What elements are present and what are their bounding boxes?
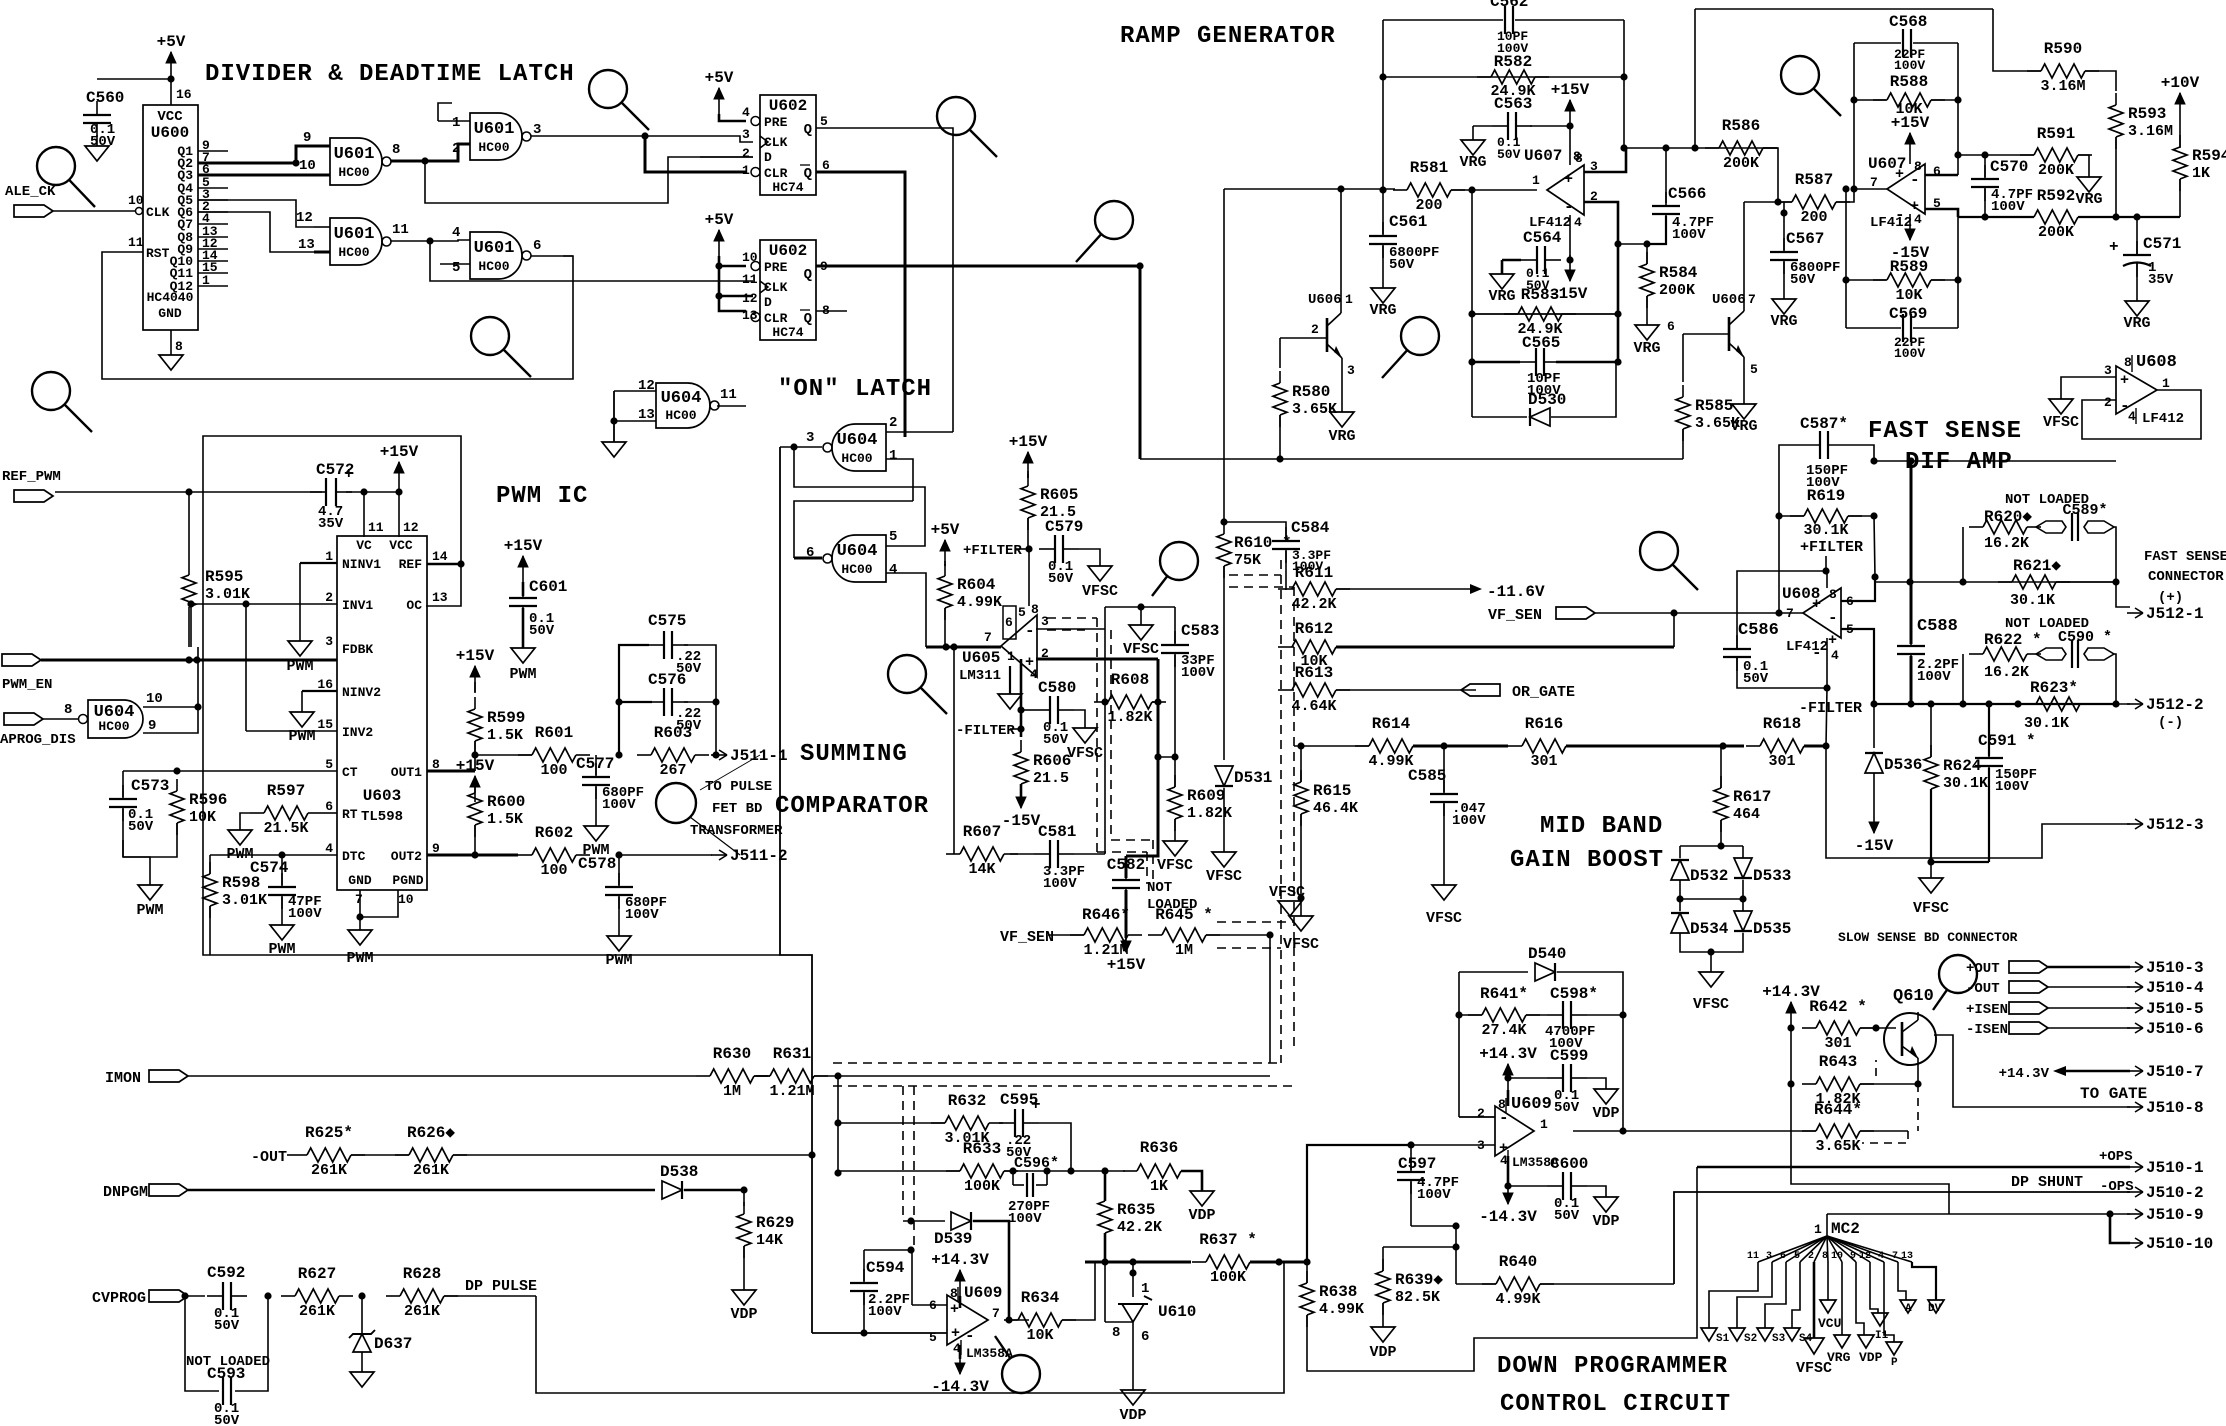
pin8 tick a — [957, 1287, 959, 1302]
resistor R584 — [1640, 252, 1698, 308]
svg-text:J510-4: J510-4 — [2146, 979, 2204, 997]
wire R622 link — [1962, 654, 1964, 704]
svg-text:D637: D637 — [374, 1335, 412, 1353]
ground VRG C561 — [1369, 288, 1396, 319]
svg-text:C588: C588 — [1917, 617, 1958, 636]
junction — [1691, 144, 1698, 151]
dashed corridor — [1229, 586, 1294, 588]
wire base to R580 — [1279, 338, 1281, 368]
svg-text:Q610: Q610 — [1893, 987, 1934, 1006]
wire gnd down — [359, 917, 361, 930]
wire R635 bottom — [1104, 1233, 1107, 1262]
wire C568 loop — [1854, 42, 1901, 44]
svg-text:Q: Q — [804, 166, 812, 182]
wire R597 to RT — [322, 812, 337, 814]
svg-text:U605: U605 — [962, 649, 1000, 667]
wire R590 bus — [1695, 8, 1993, 10]
svg-text:C565: C565 — [1522, 334, 1560, 352]
junction — [187, 600, 194, 607]
svg-text:16.2K: 16.2K — [1984, 535, 2029, 552]
wire C575 right — [684, 645, 716, 755]
capacitor C591 leads — [1988, 704, 1990, 756]
junction — [712, 751, 719, 758]
capacitor C597 leads — [1410, 1145, 1412, 1170]
wire IMON row — [188, 1075, 696, 1077]
wire U602b Q out — [816, 266, 1140, 459]
svg-text:+: + — [1812, 596, 1821, 613]
svg-text:7: 7 — [992, 1306, 1000, 1321]
ground S4 — [1784, 1328, 1800, 1341]
resistor R589 — [1873, 258, 1945, 304]
svg-text:J511-2: J511-2 — [730, 847, 788, 865]
svg-text:261K: 261K — [299, 1303, 335, 1320]
wire U601c out — [391, 240, 452, 242]
svg-text:PWM: PWM — [346, 950, 373, 967]
junction — [1870, 457, 1877, 464]
diode D530 — [1530, 408, 1550, 426]
svg-text:R639◆: R639◆ — [1395, 1271, 1443, 1289]
svg-text:14K: 14K — [968, 861, 995, 878]
svg-text:100V: 100V — [1417, 1187, 1451, 1203]
wire D530 loop — [1472, 416, 1527, 418]
wire DP PULSE — [444, 1295, 536, 1297]
-14.3V supply U609a — [931, 1359, 989, 1396]
resistor R582 — [1477, 53, 1549, 100]
capacitor C573 — [109, 777, 169, 821]
junction — [173, 767, 180, 774]
ground VRG R584 — [1633, 325, 1660, 357]
wire frame left down — [1778, 516, 1780, 613]
dashed corridor — [1229, 574, 1281, 576]
resistor R591 — [2020, 125, 2092, 179]
resistor R642 — [1802, 998, 1874, 1052]
junction — [2133, 213, 2140, 220]
svg-text:C595: C595 — [1000, 1091, 1038, 1109]
arrow -11.6V — [1470, 584, 1482, 594]
svg-text:C590 *: C590 * — [2058, 629, 2112, 646]
junction — [1566, 122, 1573, 129]
resistor R590 — [2027, 40, 2099, 95]
svg-text:-15V: -15V — [1855, 837, 1894, 855]
svg-text:VFSC: VFSC — [1269, 884, 1305, 901]
svg-text:R632: R632 — [948, 1092, 986, 1110]
wire U610 bottom — [1132, 1350, 1134, 1390]
wire R619 r — [1848, 515, 1874, 517]
wire R585 bottom — [1682, 429, 1684, 459]
junction — [1468, 186, 1475, 193]
svg-text:1: 1 — [2162, 376, 2170, 391]
wire pin2 stub — [1459, 1116, 1495, 1118]
svg-text:4.99K: 4.99K — [1368, 753, 1413, 770]
svg-text:-: - — [1025, 622, 1035, 640]
ground VFSC R609 — [1157, 841, 1193, 874]
wire J510-7 — [2066, 1070, 2130, 1073]
wire REF_PWM row — [55, 491, 322, 493]
wire d col b2 — [1742, 899, 1744, 911]
wire +14.3a down — [959, 1296, 962, 1308]
svg-text:VDP: VDP — [1592, 1213, 1619, 1230]
capacitor C585 leads — [1443, 746, 1445, 792]
svg-text:4: 4 — [2128, 409, 2136, 424]
svg-text:R584: R584 — [1659, 264, 1698, 282]
gate U601c — [330, 218, 391, 265]
connector ALE_CK — [14, 205, 53, 217]
svg-text:C575: C575 — [648, 612, 686, 630]
svg-text:R621◆: R621◆ — [2013, 557, 2061, 575]
capacitor C582 leads — [1125, 856, 1128, 878]
svg-text:U601: U601 — [474, 120, 515, 139]
svg-text:42.2K: 42.2K — [1117, 1219, 1162, 1236]
wire R620 link — [1962, 527, 1964, 582]
svg-text:CLR: CLR — [764, 311, 788, 326]
svg-text:PWM: PWM — [136, 902, 163, 919]
svg-text:HC00: HC00 — [478, 259, 509, 274]
svg-text:REF: REF — [399, 557, 423, 572]
resistor R643 — [1802, 1053, 1874, 1108]
wire MC2 up — [1826, 1214, 1828, 1236]
svg-text:301: 301 — [1768, 753, 1795, 770]
svg-text:100V: 100V — [1894, 58, 1925, 73]
wire R644 right — [1860, 1130, 1908, 1132]
svg-text:100V: 100V — [1991, 199, 2025, 215]
capacitor C596 — [1013, 1171, 1047, 1197]
svg-text:GAIN BOOST: GAIN BOOST — [1510, 847, 1664, 874]
wire C593 right — [235, 1296, 268, 1391]
svg-text:30.1K: 30.1K — [2024, 715, 2069, 732]
wire R624 bottom — [1930, 789, 1932, 862]
wire R619 l — [1779, 515, 1804, 517]
svg-text:U603: U603 — [363, 787, 401, 805]
junction — [715, 292, 722, 299]
svg-text:D533: D533 — [1753, 867, 1791, 885]
ground S3 — [1757, 1328, 1773, 1341]
capacitor C593 — [207, 1365, 245, 1405]
junction — [1717, 842, 1724, 849]
svg-text:RST: RST — [146, 246, 170, 261]
diode D533 — [1734, 858, 1752, 878]
capacitor C586 — [1723, 635, 1751, 671]
svg-text:R611: R611 — [1295, 564, 1333, 582]
wire D536 col — [1873, 704, 1875, 748]
svg-text:100V: 100V — [1043, 876, 1077, 892]
wire R580 bottom — [1279, 415, 1281, 459]
wire D540 top — [1459, 971, 1528, 973]
wire J510-10 link — [2110, 1214, 2130, 1243]
wire MC2-10 — [1841, 1262, 1843, 1335]
svg-text:U609: U609 — [964, 1284, 1002, 1302]
wire U604c out10 — [143, 647, 198, 707]
svg-text:1.21M: 1.21M — [769, 1083, 814, 1100]
resistor R613 — [1278, 664, 1350, 715]
svg-text:C569: C569 — [1889, 305, 1927, 323]
diode D532 — [1671, 860, 1689, 880]
svg-text:7: 7 — [1892, 1251, 1898, 1262]
wire +5V to VCC — [170, 78, 172, 105]
wire R638 bottom — [1307, 1167, 1697, 1371]
wire U601c out to U602b CLK — [430, 241, 753, 281]
svg-text:R602: R602 — [535, 824, 573, 842]
op-amp U607b — [1887, 164, 1925, 214]
svg-text:8: 8 — [2124, 355, 2132, 370]
resistor R598 — [203, 862, 267, 918]
off-page connector — [471, 317, 531, 377]
svg-text:R604: R604 — [957, 576, 996, 594]
gate U604c — [88, 700, 143, 738]
wire U602a Qbar out — [816, 172, 905, 437]
svg-text:FAST SENSE: FAST SENSE — [2144, 549, 2226, 565]
svg-text:200: 200 — [1800, 209, 1827, 226]
dashed corridor — [902, 1086, 904, 1221]
wire pin6 u609a — [912, 1304, 947, 1306]
svg-text:VF_SEN: VF_SEN — [1000, 929, 1054, 946]
wire vfsen — [1595, 612, 1674, 614]
resistor R612 — [1278, 620, 1350, 670]
junction — [712, 698, 719, 705]
wire PWM_EN to FDBK — [41, 659, 337, 662]
+15V supply R605 — [1009, 433, 1048, 478]
junction — [1468, 310, 1475, 317]
resistor R605 — [1021, 474, 1078, 530]
wire R637 right — [1250, 1261, 1307, 1264]
wire D539 left — [903, 1220, 945, 1222]
wire to U602a CLK — [645, 136, 753, 142]
wire U604d inputs2 — [614, 420, 656, 422]
wire C564 left — [1502, 259, 1521, 262]
capacitor C575 — [648, 612, 688, 659]
wire R594 bottom — [2179, 179, 2181, 217]
svg-text:VCC: VCC — [389, 538, 413, 553]
wire u609a out — [1009, 1319, 1029, 1321]
+14.3V supply R642 — [1762, 983, 1820, 1028]
svg-text:R620◆: R620◆ — [1984, 508, 2032, 526]
wire R615 top — [1300, 746, 1302, 782]
svg-text:7: 7 — [1748, 292, 1756, 307]
svg-text:261K: 261K — [404, 1303, 440, 1320]
svg-text:+: + — [2109, 238, 2119, 256]
svg-text:U604: U604 — [661, 389, 702, 408]
wire R584 bottom — [1646, 296, 1648, 325]
svg-text:D: D — [764, 295, 772, 310]
svg-text:OC: OC — [406, 598, 422, 613]
svg-text:U607: U607 — [1868, 155, 1906, 173]
arrow +14.3V — [2053, 1066, 2066, 1076]
junction — [1136, 262, 1143, 269]
svg-text:C566: C566 — [1668, 185, 1706, 203]
junction — [1566, 256, 1573, 263]
junction — [950, 643, 957, 650]
svg-text:1: 1 — [1141, 1281, 1149, 1297]
svg-text:301: 301 — [1530, 753, 1557, 770]
connector J511-1 — [711, 747, 788, 765]
resistor R644 — [1802, 1101, 1874, 1155]
svg-text:4: 4 — [452, 225, 460, 241]
svg-text:6: 6 — [325, 799, 333, 814]
wire R589 left col — [1845, 189, 1847, 328]
svg-text:C562: C562 — [1490, 0, 1528, 11]
wire pin4 col — [1826, 638, 1828, 688]
wire NINV2 down — [301, 691, 303, 712]
junction — [1101, 1258, 1108, 1265]
resistor R581 — [1393, 159, 1465, 214]
svg-text:8: 8 — [1112, 1325, 1120, 1341]
svg-text:50V: 50V — [1497, 147, 1521, 162]
junction — [1670, 609, 1677, 616]
svg-text:8: 8 — [1031, 602, 1039, 617]
wire U601d out — [531, 255, 573, 257]
svg-text:R583: R583 — [1521, 286, 1559, 304]
wire fb u608b — [2082, 390, 2201, 439]
junction — [1379, 73, 1386, 80]
resistor R629 — [737, 1202, 794, 1258]
svg-text:2: 2 — [742, 146, 750, 161]
dashed link R644 — [1862, 1131, 1908, 1143]
junction — [740, 1186, 747, 1193]
svg-text:VDP: VDP — [1119, 1407, 1146, 1424]
svg-text:10: 10 — [1831, 1251, 1843, 1262]
svg-text:464: 464 — [1733, 806, 1760, 823]
svg-text:VRG: VRG — [1328, 428, 1355, 445]
pin8 tick — [2131, 355, 2133, 372]
svg-text:CVPROG: CVPROG — [92, 1290, 146, 1307]
svg-text:C571: C571 — [2143, 235, 2181, 253]
svg-text:100V: 100V — [602, 797, 636, 813]
svg-text:R585: R585 — [1695, 397, 1733, 415]
capacitor C592 — [207, 1264, 247, 1310]
wire C584 hook — [1224, 522, 1286, 541]
junction — [1927, 858, 1934, 865]
connector J510-2 — [2127, 1184, 2204, 1202]
wire u608a out — [1674, 612, 1803, 614]
ground VRG C567 — [1770, 299, 1797, 330]
wire to C560 — [97, 78, 171, 80]
svg-text:21.5: 21.5 — [1033, 770, 1069, 787]
wire CT row — [123, 770, 337, 772]
svg-text:16: 16 — [176, 87, 192, 102]
ground VRG U606a — [1328, 412, 1355, 445]
wire U601c in1 — [314, 226, 330, 228]
svg-text:PWM_EN: PWM_EN — [2, 677, 52, 693]
svg-text:INV2: INV2 — [342, 725, 373, 740]
svg-text:1: 1 — [889, 448, 897, 464]
wire C560 gnd — [96, 135, 98, 146]
resistor R622 — [1969, 631, 2042, 681]
svg-text:1: 1 — [452, 115, 460, 131]
wire R634 right — [1062, 1262, 1095, 1320]
wire R588 row r — [1931, 99, 1958, 101]
wire pin3 in — [1036, 628, 1105, 630]
wire REF frame — [203, 436, 780, 955]
svg-text:TL598: TL598 — [361, 809, 403, 825]
junction — [1620, 73, 1627, 80]
resistor R603 — [637, 724, 709, 779]
U605 balance strap — [1003, 606, 1016, 639]
wire pin3 — [1584, 148, 1626, 172]
junction — [421, 157, 428, 164]
ground VRG R591 — [2075, 177, 2102, 208]
wire feed down — [1694, 9, 1696, 148]
dashed corridor — [1047, 629, 1085, 631]
wire NINV1 — [300, 562, 337, 564]
svg-text:3.01K: 3.01K — [222, 892, 267, 909]
wire R607 col — [953, 647, 955, 854]
svg-text:12: 12 — [296, 210, 313, 226]
svg-text:TO GATE: TO GATE — [2080, 1085, 2147, 1103]
svg-text:J510-8: J510-8 — [2146, 1099, 2204, 1117]
svg-text:APROG_DIS: APROG_DIS — [0, 732, 76, 748]
svg-text:3: 3 — [2104, 363, 2112, 378]
wire C591 hook — [1931, 861, 1989, 863]
svg-text:8: 8 — [1573, 149, 1581, 164]
+15V supply C582 — [1107, 938, 1146, 974]
wire R633 right — [1004, 1170, 1105, 1172]
svg-text:PWM: PWM — [286, 658, 313, 675]
-14.3V supply U609b — [1479, 1186, 1537, 1226]
svg-text:50V: 50V — [90, 134, 116, 150]
svg-text:U600: U600 — [151, 124, 189, 142]
junction — [1959, 700, 1966, 707]
+5V supply U600 — [157, 33, 186, 78]
svg-text:J510-10: J510-10 — [2146, 1235, 2213, 1253]
wire R599 bottom — [474, 741, 476, 755]
wire left col — [1382, 20, 1384, 190]
svg-text:-ISEN: -ISEN — [1966, 1022, 2008, 1038]
svg-text:100V: 100V — [1894, 346, 1925, 361]
svg-text:U602: U602 — [769, 242, 807, 260]
capacitor C585 — [1430, 780, 1458, 816]
wire to J511-2 — [619, 854, 712, 856]
pin4 tick b — [1507, 1150, 1509, 1166]
svg-text:FAST SENSE: FAST SENSE — [1868, 418, 2022, 445]
dashed link R643 — [1875, 1060, 1877, 1076]
svg-text:R626◆: R626◆ — [407, 1124, 455, 1142]
junction — [1129, 1269, 1136, 1276]
wire left col U607a — [1471, 190, 1473, 417]
svg-text:3: 3 — [806, 430, 814, 446]
dashed corridor — [1217, 921, 1294, 923]
dashed corridor — [833, 1062, 1281, 1064]
wire R640 right — [1540, 1283, 1674, 1285]
svg-text:+OUT: +OUT — [1966, 961, 2000, 977]
resistor R618 — [1746, 715, 1818, 770]
junction — [1455, 1011, 1462, 1018]
junction — [715, 262, 722, 269]
wire MC2-8 — [1827, 1262, 1829, 1300]
svg-text:8: 8 — [1822, 1251, 1828, 1262]
wire R595 top — [188, 492, 190, 575]
shunt regulator U610 — [1105, 1262, 1196, 1350]
svg-text:R589: R589 — [1890, 258, 1928, 276]
wire R614 right — [1413, 745, 1508, 748]
svg-text:100V: 100V — [625, 907, 659, 923]
svg-text:100V: 100V — [1181, 665, 1215, 681]
wire cross couple b — [794, 501, 913, 558]
wire pfilter stub — [1825, 556, 1827, 571]
MC2 connector fan — [1758, 1236, 1912, 1262]
ground VFSC C579 — [1082, 566, 1118, 600]
junction — [1101, 1167, 1108, 1174]
capacitor C560 — [83, 89, 124, 150]
svg-text:C579: C579 — [1045, 518, 1083, 536]
svg-text:A: A — [1905, 1303, 1912, 1315]
connector J512-3 — [2127, 816, 2204, 834]
wire R609 top — [1174, 757, 1176, 787]
svg-text:11: 11 — [368, 520, 384, 535]
wire R598 top — [209, 855, 211, 874]
svg-text:9: 9 — [148, 718, 156, 734]
svg-text:NINV2: NINV2 — [342, 685, 381, 700]
wire R629 bottom — [743, 1246, 745, 1290]
svg-text:HC00: HC00 — [665, 408, 696, 423]
